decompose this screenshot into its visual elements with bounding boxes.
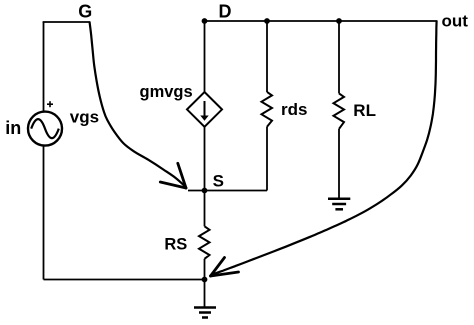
junction dot at rds top [264,18,270,24]
voltage source plus sign [47,101,53,107]
svg-text:rds: rds [281,100,307,119]
wire RL bottom to ground [338,129,340,199]
wire left vertical top (G to source) [43,22,45,111]
svg-text:in: in [5,118,21,138]
wire left vertical bottom (source to bottom rail) [43,146,45,280]
dependent source gmvgs diamond [187,92,222,127]
svg-text:RL: RL [353,101,376,120]
wire D down to gmvgs [204,21,206,92]
wire bottom horizontal rail [44,279,206,281]
svg-text:S: S [213,172,224,191]
voltage source sine wave [31,119,59,138]
gmvgs internal arrow [204,101,206,116]
wire RS to bottom node [204,259,206,280]
wire S stub left [188,190,205,192]
resistor RL zigzag [334,93,345,128]
junction dot at RL top [336,18,342,24]
svg-text:RS: RS [164,236,187,254]
curved arrow out to bottom node [211,21,437,275]
arrowhead at bottom node [211,258,239,277]
svg-text:D: D [219,1,232,21]
arrowhead at S [160,163,186,188]
ground bottom center [194,308,216,318]
wire rds bottom [266,127,268,191]
node D junction dot [202,18,208,24]
node S junction dot [202,188,208,194]
curved arrow G to S [90,22,186,188]
bottom node junction dot [202,277,208,283]
wire top-left horizontal (G) [43,21,90,23]
svg-text:vgs: vgs [70,107,99,126]
wire rds top [266,21,268,92]
wire top-right horizontal (D to out) [205,20,438,22]
resistor rds zigzag [262,92,273,127]
svg-text:gmvgs: gmvgs [140,83,193,101]
wire rds bottom to S [205,190,268,192]
wire bottom node to ground [204,280,206,308]
svg-text:G: G [78,2,92,22]
wire RL top [338,21,340,93]
wire gmvgs to S to RS [204,127,206,227]
resistor RS zigzag [199,226,210,258]
svg-text:out: out [442,11,469,30]
voltage source vgs circle [28,112,62,146]
ground under RL [328,199,350,210]
